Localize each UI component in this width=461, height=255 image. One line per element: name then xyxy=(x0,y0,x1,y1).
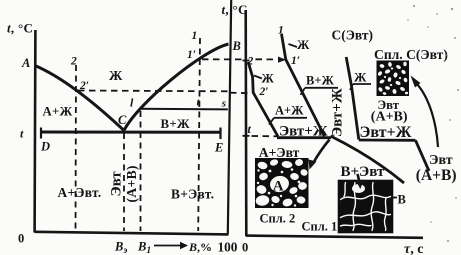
Spl.1 micrograph box xyxy=(339,181,392,232)
leader Zh curve1 xyxy=(289,44,298,47)
svg-text:(А+В): (А+В) xyxy=(124,165,139,202)
dashed vertical eutectic composition xyxy=(123,133,125,231)
curved arrow to eutectic box xyxy=(417,84,438,147)
svg-text:A: A xyxy=(21,56,30,70)
eutectic micrograph box xyxy=(377,61,410,97)
cooling curve 1 xyxy=(282,34,325,136)
svg-text:1′: 1′ xyxy=(291,55,300,67)
dashed continuation to 1' dot xyxy=(256,58,278,60)
svg-text:2′: 2′ xyxy=(259,86,269,98)
eutectic plateau curve C xyxy=(359,139,416,142)
dashed vertical alloy 2 xyxy=(75,65,78,231)
dashed vertical alloy 1 xyxy=(198,38,200,231)
dashed horizontal through 2' xyxy=(78,90,228,93)
1' arrow dot xyxy=(278,57,286,63)
svg-text:Ж: Ж xyxy=(354,71,367,85)
svg-text:В+Эвт.: В+Эвт. xyxy=(171,187,214,202)
svg-text:А+Ж: А+Ж xyxy=(275,104,304,118)
svg-text:Эвт+Ж: Эвт+Ж xyxy=(279,123,328,139)
svg-text:1′: 1′ xyxy=(187,49,196,61)
cooling curve 2 xyxy=(248,62,278,137)
tick at curve2 start temp xyxy=(243,60,250,62)
svg-text:В+Ж: В+Ж xyxy=(161,117,190,131)
svg-text:А+Ж: А+Ж xyxy=(43,105,73,119)
svg-text:1: 1 xyxy=(192,30,198,42)
composition arrow xyxy=(154,245,181,247)
svg-text:Ж: Ж xyxy=(262,72,275,86)
tick to B label xyxy=(392,197,398,199)
post-plateau descent curve C xyxy=(416,140,430,171)
svg-text:В: В xyxy=(398,193,406,207)
svg-text:В1: В1 xyxy=(137,240,151,255)
left diagram x-axis xyxy=(35,232,229,235)
svg-text:C: C xyxy=(118,113,127,127)
tick D xyxy=(40,128,42,139)
svg-text:Вэ: Вэ xyxy=(114,240,127,255)
svg-text:1: 1 xyxy=(278,25,284,37)
svg-text:s: s xyxy=(221,98,226,110)
svg-text:Эвт+Ж: Эвт+Ж xyxy=(360,124,412,141)
svg-text:А: А xyxy=(273,179,284,195)
svg-text:2: 2 xyxy=(70,56,77,68)
svg-text:А+Эвт.: А+Эвт. xyxy=(58,185,102,200)
left diagram right axis 100%B xyxy=(228,0,231,234)
arrow into Spl.1 box xyxy=(358,174,360,182)
svg-text:Спл. С(Эвт): Спл. С(Эвт) xyxy=(374,47,448,63)
svg-text:0: 0 xyxy=(242,241,248,255)
left diagram t-axis xyxy=(33,30,36,233)
cooling curve C(Evt) xyxy=(346,57,359,140)
svg-text:t, °C: t, °C xyxy=(7,21,33,36)
eutectic plateau curves 1-2 xyxy=(277,136,331,139)
svg-text:τ, с: τ, с xyxy=(404,242,423,255)
dashed continuation through 2' xyxy=(230,92,252,95)
right diagram tau-axis xyxy=(246,236,423,238)
svg-text:t: t xyxy=(20,127,24,141)
svg-text:Эвт+Ж: Эвт+Ж xyxy=(330,88,346,137)
eutectic temp tick right xyxy=(243,135,250,137)
svg-text:В,%: В,% xyxy=(188,240,212,254)
Spl.2 micrograph box xyxy=(255,158,309,208)
svg-text:В+Ж: В+Ж xyxy=(306,74,334,88)
post-plateau descent curves 1-2 xyxy=(331,136,405,183)
svg-text:Ж: Ж xyxy=(297,38,310,52)
svg-text:Ж: Ж xyxy=(109,68,123,83)
svg-text:0: 0 xyxy=(18,232,24,246)
svg-text:Спл. 1: Спл. 1 xyxy=(302,220,338,234)
svg-text:D: D xyxy=(40,140,50,154)
svg-text:Спл. 2: Спл. 2 xyxy=(260,212,296,226)
svg-text:t: t xyxy=(248,122,252,136)
eutectic line D-E xyxy=(41,131,221,134)
svg-text:100: 100 xyxy=(218,240,238,255)
annotation arrow to Spl.2 box xyxy=(314,140,330,163)
leader Zh curve2 xyxy=(254,76,262,79)
svg-text:2: 2 xyxy=(247,56,254,68)
svg-text:С(Эвт): С(Эвт) xyxy=(332,28,373,43)
dashed horizontal through 1' xyxy=(202,58,243,60)
svg-text:t, °C: t, °C xyxy=(222,2,248,17)
svg-text:Эвт: Эвт xyxy=(109,171,125,197)
liquidus left branch A-C xyxy=(36,66,124,131)
svg-text:А+Эвт: А+Эвт xyxy=(259,145,300,160)
svg-text:2′: 2′ xyxy=(79,80,89,92)
dashed vertical B1 xyxy=(140,111,142,231)
svg-text:Эвт: Эвт xyxy=(429,153,453,168)
svg-text:B: B xyxy=(232,39,241,53)
svg-text:E: E xyxy=(214,141,223,155)
right diagram t-axis xyxy=(244,10,247,236)
eutectic temp dashes right xyxy=(252,135,278,137)
svg-text:(А+В): (А+В) xyxy=(371,109,408,124)
svg-text:l: l xyxy=(130,96,134,110)
liquidus right branch C-B xyxy=(124,44,229,131)
tie line l-s xyxy=(139,108,228,111)
svg-text:(А+В): (А+В) xyxy=(416,167,457,184)
scan speckles xyxy=(407,5,459,242)
svg-text:В+Эвт: В+Эвт xyxy=(341,164,385,180)
tick E xyxy=(219,128,221,140)
